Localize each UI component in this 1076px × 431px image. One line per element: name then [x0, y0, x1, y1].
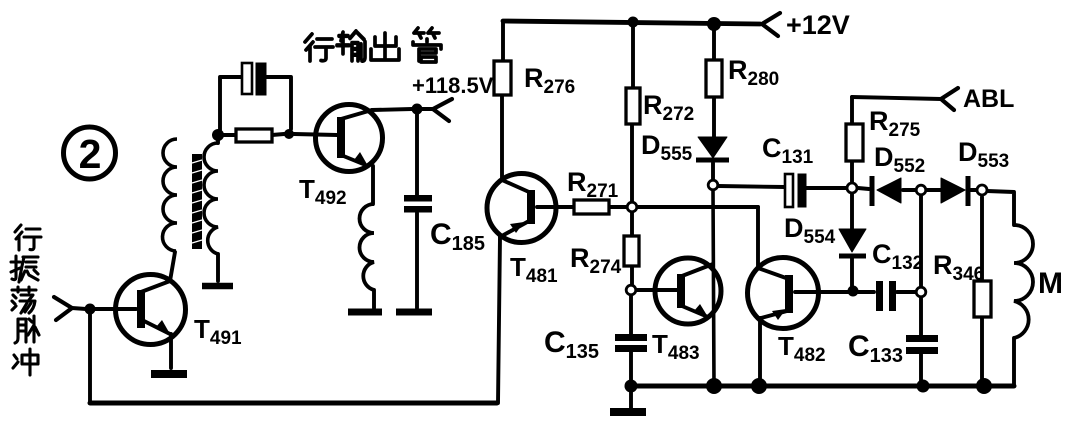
svg-text:2: 2	[79, 131, 102, 177]
svg-text:+12V: +12V	[786, 10, 850, 40]
svg-text:M: M	[1038, 267, 1063, 300]
svg-text:ABL: ABL	[963, 85, 1014, 113]
svg-text:+118.5V: +118.5V	[412, 73, 494, 98]
